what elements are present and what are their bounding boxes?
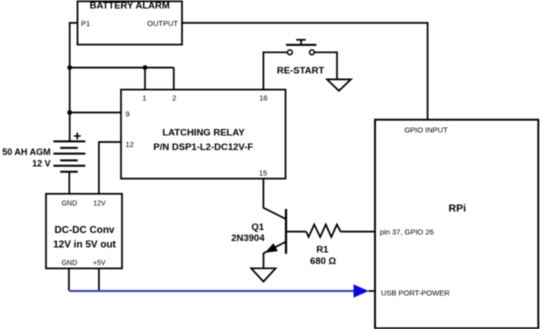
transistor Q1 emitter <box>264 242 287 254</box>
junction dot B <box>143 65 148 70</box>
wire button right terminal to ground <box>314 52 337 79</box>
battery short plate 1 <box>60 147 77 149</box>
svg-text:P1: P1 <box>81 19 90 28</box>
battery long plate 2 <box>53 153 85 155</box>
svg-text:P/N DSP1-L2-DC12V-F: P/N DSP1-L2-DC12V-F <box>153 142 253 153</box>
DC-DC converter box U3 <box>46 194 122 269</box>
ground symbol at Q1 emitter <box>251 268 275 281</box>
svg-text:680 Ω: 680 Ω <box>310 256 336 267</box>
svg-text:2N3904: 2N3904 <box>231 233 265 244</box>
battery short plate 3 <box>60 171 77 173</box>
wire resistor to RPi pin 37 <box>341 231 375 233</box>
RPi box U4 <box>375 120 538 329</box>
push button S1 left terminal <box>288 50 293 55</box>
wire P1 to left vertical <box>70 23 78 141</box>
svg-text:LATCHING RELAY: LATCHING RELAY <box>162 127 245 138</box>
svg-text:12V in 5V out: 12V in 5V out <box>53 239 116 250</box>
battery BT1 positive plate 1 <box>53 140 85 142</box>
push button actuator bar <box>286 44 316 46</box>
svg-text:OUTPUT: OUTPUT <box>147 19 178 28</box>
wire relay pin 16 to push button <box>263 52 287 89</box>
svg-text:pin 37, GPIO 26: pin 37, GPIO 26 <box>380 227 434 236</box>
svg-text:12: 12 <box>126 140 134 149</box>
svg-text:RPi: RPi <box>449 203 467 215</box>
svg-text:DC-DC Conv: DC-DC Conv <box>55 225 115 236</box>
transistor Q1 base bar <box>285 209 287 254</box>
wire stub arrow to RPi edge <box>369 290 376 292</box>
svg-text:BATTERY ALARM: BATTERY ALARM <box>90 0 170 11</box>
wire pin 2 drop <box>173 68 175 90</box>
wire +5V bottom drop <box>98 268 100 291</box>
transistor Q1 emitter arrowhead <box>266 244 277 252</box>
svg-text:50 AH AGM: 50 AH AGM <box>2 147 50 157</box>
svg-text:USB PORT-POWER: USB PORT-POWER <box>381 289 450 298</box>
wire DC-DC 12V to relay pin 12 <box>99 142 121 194</box>
wire to relay pin 9 <box>70 112 121 114</box>
svg-text:12 V: 12 V <box>32 159 51 169</box>
wire relay pin 15 to Q1 collector <box>263 178 286 219</box>
svg-text:16: 16 <box>259 93 267 102</box>
blue USB power wire <box>69 290 354 292</box>
wire Q1 base to resistor <box>286 231 306 233</box>
wire emitter to ground <box>263 253 265 268</box>
wire pin 1 drop <box>144 68 146 90</box>
svg-text:+5V: +5V <box>93 260 106 267</box>
svg-text:12V: 12V <box>93 200 106 207</box>
relay box K1 <box>121 90 286 179</box>
push button stem <box>300 40 302 45</box>
wire horizontal to relay pins 1 and 2 <box>70 67 174 69</box>
resistor R1 zigzag <box>306 225 340 238</box>
svg-text:9: 9 <box>126 109 130 118</box>
ground symbol at re-start <box>327 79 351 90</box>
battery short plate 2 <box>60 159 77 161</box>
svg-text:15: 15 <box>259 168 267 177</box>
push button S1 right terminal <box>310 50 315 55</box>
svg-text:2: 2 <box>172 93 176 102</box>
wire GND bottom drop <box>68 268 70 291</box>
battery alarm box U2 <box>78 1 183 44</box>
junction dot A <box>67 65 72 70</box>
svg-text:RE-START: RE-START <box>277 66 325 77</box>
svg-text:1: 1 <box>142 93 146 102</box>
svg-text:GND: GND <box>62 200 78 207</box>
battery plus sign <box>74 133 81 140</box>
blue arrowhead into RPi <box>354 284 369 297</box>
svg-text:GPIO INPUT: GPIO INPUT <box>404 126 448 135</box>
push button cap <box>296 39 306 41</box>
wire OUTPUT to RPi GPIO <box>182 23 428 120</box>
wire battery minus to DC-DC GND <box>68 172 70 194</box>
svg-text:Q1: Q1 <box>251 222 264 233</box>
battery long plate 3 <box>53 165 85 167</box>
junction dot C <box>67 110 72 115</box>
svg-text:GND: GND <box>62 260 78 267</box>
svg-text:R1: R1 <box>316 244 329 255</box>
